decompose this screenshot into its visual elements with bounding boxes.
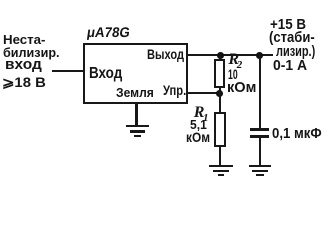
pin label Упр.	[163, 83, 186, 97]
label μA78G	[86, 25, 131, 39]
label R1	[194, 105, 205, 121]
node capacitor junction	[256, 52, 263, 59]
label output terminal +15 В (стабилизир.) 0-1 А	[0, 0, 330, 1]
label C1 value 0,1 мкФ	[272, 126, 322, 141]
wire R2 top stub	[219, 55, 221, 60]
pin label Вход	[89, 66, 122, 82]
label R2	[228, 52, 239, 68]
ground under R1	[0, 0, 330, 1]
label R1 value 5,1	[190, 118, 207, 131]
ground under IC	[0, 0, 330, 1]
wire capacitor bottom rail	[259, 138, 261, 166]
label R1 unit кОм	[186, 130, 210, 144]
capacitor C1 bottom plate	[250, 135, 270, 138]
wire input (unregulated input to IC)	[52, 70, 83, 72]
ground under capacitor	[0, 0, 330, 1]
node control/divider junction	[216, 90, 223, 97]
wire ground pin (Земля to ground symbol)	[135, 102, 138, 125]
resistor R1	[214, 112, 226, 148]
IC U1 μA78G regulator box	[83, 43, 188, 104]
wire R2 bottom to R1 top	[219, 88, 221, 113]
label R2 unit кОм	[227, 80, 256, 95]
label R2 value 10	[228, 67, 238, 81]
pin label Выход	[147, 48, 184, 62]
resistor R2	[214, 59, 226, 89]
node output/R2 junction	[217, 52, 224, 59]
capacitor C1 top plate	[250, 128, 270, 131]
label input terminal "Нестабилизир. вход ≥18 В"	[0, 0, 330, 1]
wire output (IC output rail to +15V)	[187, 54, 273, 56]
wire R1 bottom to ground	[219, 146, 221, 166]
wire capacitor top rail	[259, 55, 261, 128]
wire control (Упр. pin to divider)	[187, 92, 220, 94]
pin label Земля	[116, 86, 154, 99]
